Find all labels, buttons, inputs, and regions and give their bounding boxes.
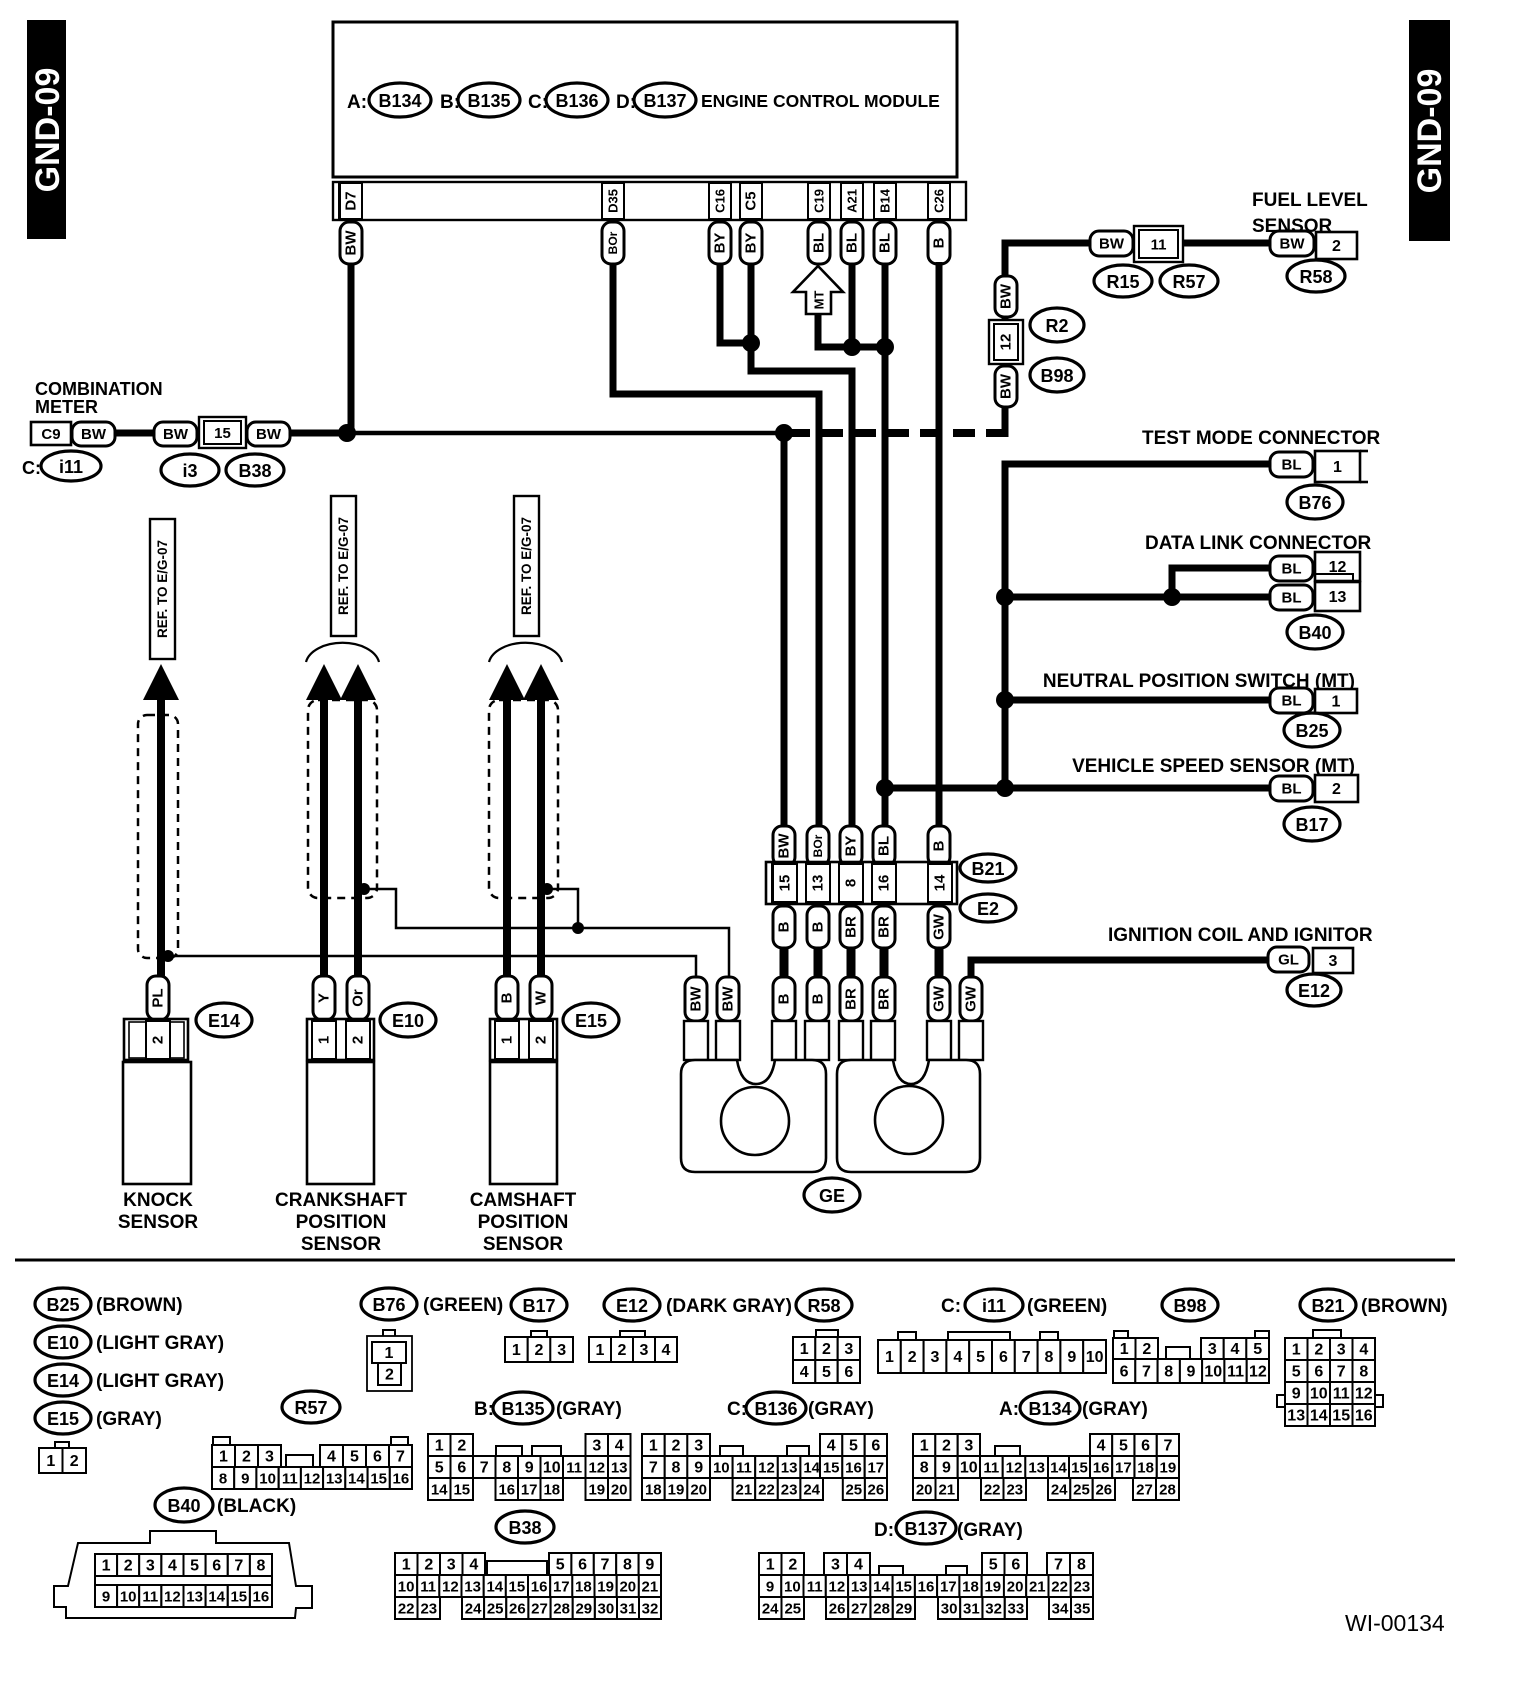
svg-text:SENSOR: SENSOR xyxy=(1252,216,1333,237)
svg-text:4: 4 xyxy=(953,1349,962,1366)
wire label BL (B14) xyxy=(874,222,896,264)
svg-text:BL: BL xyxy=(1282,781,1302,798)
svg-text:1: 1 xyxy=(316,1036,333,1044)
junction dot BL riser bottom xyxy=(996,779,1014,797)
svg-text:1: 1 xyxy=(435,1438,444,1455)
svg-text:E10: E10 xyxy=(47,1333,79,1353)
svg-text:2: 2 xyxy=(1142,1341,1151,1358)
wire BY from C16 to junction xyxy=(720,264,751,343)
svg-text:BR: BR xyxy=(876,916,893,938)
legend connector E12 pinout xyxy=(620,1331,645,1338)
svg-text:2: 2 xyxy=(788,1557,797,1574)
svg-text:27: 27 xyxy=(851,1601,868,1618)
wire BL to data link 12 xyxy=(1172,568,1270,597)
knock sensor body xyxy=(123,1062,191,1184)
svg-text:14: 14 xyxy=(348,1471,365,1488)
svg-text:E12: E12 xyxy=(1298,981,1330,1001)
dashed shield box (crank) xyxy=(308,700,377,898)
pin box 1 (test mode) xyxy=(1315,451,1360,482)
pin C16 xyxy=(709,183,731,219)
connector oval R15 xyxy=(1094,265,1152,297)
svg-text:11: 11 xyxy=(736,1460,752,1477)
svg-text:9: 9 xyxy=(241,1471,249,1488)
svg-text:B40: B40 xyxy=(1298,623,1331,643)
svg-text:13: 13 xyxy=(1287,1408,1305,1425)
legend oval B137 xyxy=(896,1512,956,1544)
svg-text:26: 26 xyxy=(868,1482,885,1499)
svg-text:35: 35 xyxy=(1074,1601,1091,1618)
svg-text:16: 16 xyxy=(253,1589,270,1606)
svg-text:14: 14 xyxy=(486,1579,503,1596)
wire crank sensor ground tap xyxy=(358,889,578,928)
ground terminal block x728 xyxy=(716,1021,740,1060)
svg-text:24: 24 xyxy=(762,1601,779,1618)
svg-text:16: 16 xyxy=(918,1579,935,1596)
legend oval B38 xyxy=(496,1511,554,1543)
wire cam sensor ground tap xyxy=(541,889,578,928)
connector B21/E2 box xyxy=(766,862,957,904)
svg-text:27: 27 xyxy=(1136,1482,1153,1499)
svg-text:(BROWN): (BROWN) xyxy=(1361,1296,1448,1317)
wire label BR lower at x884 xyxy=(873,977,895,1021)
svg-text:3: 3 xyxy=(557,1342,566,1359)
wire meter bus dashed to fuel chain xyxy=(788,429,1005,437)
svg-text:BW: BW xyxy=(256,426,282,443)
svg-text:28: 28 xyxy=(873,1601,890,1618)
svg-text:16: 16 xyxy=(1355,1408,1373,1425)
wire label B (C26) xyxy=(928,222,950,264)
svg-text:(LIGHT GRAY): (LIGHT GRAY) xyxy=(96,1333,224,1354)
svg-text:12: 12 xyxy=(588,1460,605,1477)
svg-text:C:: C: xyxy=(941,1296,961,1317)
svg-text:8: 8 xyxy=(672,1460,681,1477)
svg-text:R15: R15 xyxy=(1106,272,1139,292)
pin box 12 (data link) xyxy=(1315,552,1360,581)
inline connector 15 (i3/B38) xyxy=(199,417,246,448)
wire BY from C5 down and over to B21 pin 8 xyxy=(751,264,852,828)
svg-text:23: 23 xyxy=(781,1482,798,1499)
svg-text:4: 4 xyxy=(1231,1341,1240,1358)
crank sensor body xyxy=(307,1062,374,1184)
svg-text:BY: BY xyxy=(843,836,860,857)
svg-text:14: 14 xyxy=(208,1589,225,1606)
svg-text:1: 1 xyxy=(512,1342,521,1359)
svg-text:(BROWN): (BROWN) xyxy=(96,1295,183,1316)
svg-text:1: 1 xyxy=(885,1349,894,1366)
svg-text:32: 32 xyxy=(985,1601,1002,1618)
svg-text:3: 3 xyxy=(844,1341,853,1358)
svg-text:22: 22 xyxy=(1051,1579,1068,1596)
connector oval B38 (meter) xyxy=(226,454,284,486)
svg-text:B25: B25 xyxy=(1295,721,1328,741)
svg-text:26: 26 xyxy=(509,1601,526,1618)
svg-text:6: 6 xyxy=(999,1349,1008,1366)
svg-text:C16: C16 xyxy=(713,189,728,213)
legend connector B135 pinout xyxy=(428,1434,451,1456)
svg-text:14: 14 xyxy=(431,1482,448,1499)
svg-text:29: 29 xyxy=(575,1601,592,1618)
pin C26 xyxy=(928,183,950,219)
svg-text:16: 16 xyxy=(845,1460,862,1477)
wire label BY (C5) xyxy=(740,222,762,264)
svg-text:11: 11 xyxy=(1151,237,1167,254)
svg-text:i11: i11 xyxy=(982,1296,1006,1316)
pin box bridge (data link) xyxy=(1315,574,1353,590)
junction dot BL main at speed sensor xyxy=(876,779,894,797)
svg-text:14: 14 xyxy=(1050,1460,1067,1477)
svg-text:16: 16 xyxy=(498,1482,515,1499)
legend connector B38 pinout xyxy=(395,1553,418,1575)
svg-text:26: 26 xyxy=(829,1601,846,1618)
ECM box outline xyxy=(333,22,957,177)
svg-text:5: 5 xyxy=(989,1557,998,1574)
svg-text:6: 6 xyxy=(1011,1557,1020,1574)
legend oval E15 xyxy=(35,1402,91,1434)
ground terminal block x784 xyxy=(772,1021,796,1060)
svg-text:B98: B98 xyxy=(1173,1296,1206,1316)
svg-text:10: 10 xyxy=(713,1460,730,1477)
svg-text:2: 2 xyxy=(457,1438,466,1455)
svg-text:(GREEN): (GREEN) xyxy=(1027,1296,1107,1317)
svg-text:C5: C5 xyxy=(743,191,760,210)
junction dot BY xyxy=(742,334,760,352)
svg-text:1: 1 xyxy=(1332,694,1341,711)
svg-text:10: 10 xyxy=(960,1460,978,1477)
svg-text:33: 33 xyxy=(1008,1601,1025,1618)
svg-text:3: 3 xyxy=(964,1438,973,1455)
svg-text:MT: MT xyxy=(812,291,827,310)
svg-text:E15: E15 xyxy=(575,1011,607,1031)
svg-text:7: 7 xyxy=(1022,1349,1031,1366)
ground lug GE left xyxy=(681,1060,826,1172)
svg-text:B:: B: xyxy=(474,1399,494,1420)
svg-text:15: 15 xyxy=(777,875,794,892)
svg-text:21: 21 xyxy=(938,1482,955,1499)
svg-text:12: 12 xyxy=(442,1579,459,1596)
svg-text:23: 23 xyxy=(420,1601,437,1618)
cam sensor body xyxy=(490,1062,557,1184)
svg-text:9: 9 xyxy=(942,1460,951,1477)
ground terminal block x696 xyxy=(684,1021,708,1060)
pin box 2 (speed sensor) xyxy=(1315,775,1358,802)
wire label BL (A21) xyxy=(841,222,863,264)
ref label REF. TO E/G-07 (cam) xyxy=(514,496,539,636)
svg-text:BL: BL xyxy=(877,233,894,253)
svg-text:2: 2 xyxy=(672,1438,681,1455)
svg-text:17: 17 xyxy=(521,1482,538,1499)
svg-text:GW: GW xyxy=(931,985,948,1012)
svg-text:5: 5 xyxy=(190,1558,199,1575)
svg-text:E10: E10 xyxy=(392,1011,424,1031)
svg-text:12: 12 xyxy=(304,1471,321,1488)
svg-text:7: 7 xyxy=(1163,1438,1172,1455)
wire BL from A21 down xyxy=(849,264,856,347)
legend oval B134 xyxy=(1020,1392,1080,1424)
svg-text:BR: BR xyxy=(843,916,860,938)
legend oval i11 xyxy=(965,1289,1023,1321)
connector oval B76 (test mode) xyxy=(1287,485,1343,519)
svg-text:POSITION: POSITION xyxy=(296,1212,387,1233)
svg-text:23: 23 xyxy=(1074,1579,1091,1596)
legend oval B135 xyxy=(493,1392,553,1424)
svg-text:REF. TO E/G-07: REF. TO E/G-07 xyxy=(336,517,351,615)
svg-text:13: 13 xyxy=(781,1460,798,1477)
svg-text:8: 8 xyxy=(1164,1364,1173,1381)
legend connector i11 pinout xyxy=(898,1332,916,1341)
svg-text:C:: C: xyxy=(22,458,41,478)
legend oval E14 xyxy=(35,1364,91,1396)
svg-text:10: 10 xyxy=(1086,1349,1104,1366)
arc over cam arrows xyxy=(489,643,562,662)
svg-text:15: 15 xyxy=(823,1460,840,1477)
wire label BY (C16) xyxy=(709,222,731,264)
svg-text:16: 16 xyxy=(393,1471,410,1488)
wire label B below B21 at x784 xyxy=(773,906,795,948)
arrow crank sensor wire 2 (Or) xyxy=(340,664,376,700)
svg-text:E12: E12 xyxy=(616,1296,648,1316)
svg-text:8: 8 xyxy=(502,1460,511,1477)
wire label GW below B21 at x939 xyxy=(928,906,950,948)
ground terminal block x971 xyxy=(959,1021,983,1060)
svg-text:POSITION: POSITION xyxy=(478,1212,569,1233)
svg-text:GE: GE xyxy=(819,1186,845,1206)
svg-text:5: 5 xyxy=(1253,1341,1262,1358)
svg-text:5: 5 xyxy=(435,1460,444,1477)
svg-text:C9: C9 xyxy=(41,426,60,443)
connector oval E10 xyxy=(380,1003,436,1037)
svg-text:B136: B136 xyxy=(754,1399,797,1419)
svg-text:7: 7 xyxy=(480,1460,489,1477)
svg-text:R57: R57 xyxy=(1172,272,1205,292)
svg-text:15: 15 xyxy=(895,1579,912,1596)
svg-text:B38: B38 xyxy=(238,461,271,481)
svg-text:3: 3 xyxy=(1337,1342,1346,1359)
wire label BL (data link 12) xyxy=(1270,556,1313,581)
svg-text:B: B xyxy=(499,992,516,1003)
wire label BW (cam/crank ground) xyxy=(717,977,739,1021)
wire meter bus to D7 junction xyxy=(290,430,355,437)
connector oval i3 xyxy=(161,454,219,486)
svg-text:17: 17 xyxy=(1115,1460,1132,1477)
wire stub B x784 xyxy=(780,948,789,977)
svg-text:1: 1 xyxy=(920,1438,929,1455)
svg-text:B17: B17 xyxy=(522,1296,555,1316)
svg-text:6: 6 xyxy=(871,1438,880,1455)
svg-text:B137: B137 xyxy=(904,1519,947,1539)
svg-text:SENSOR: SENSOR xyxy=(483,1234,564,1255)
svg-text:19: 19 xyxy=(597,1579,614,1596)
svg-text:1: 1 xyxy=(102,1558,111,1575)
svg-text:Or: Or xyxy=(350,989,367,1007)
svg-text:R2: R2 xyxy=(1045,316,1068,336)
svg-text:13: 13 xyxy=(326,1471,343,1488)
svg-text:21: 21 xyxy=(642,1579,659,1596)
svg-text:B76: B76 xyxy=(1298,493,1331,513)
svg-text:10: 10 xyxy=(120,1589,137,1606)
svg-text:BW: BW xyxy=(998,283,1015,309)
svg-text:6: 6 xyxy=(578,1557,587,1574)
svg-text:13: 13 xyxy=(464,1579,481,1596)
svg-text:i3: i3 xyxy=(182,461,197,481)
ground terminal block x817 xyxy=(805,1021,829,1060)
label GND-09 banner left xyxy=(27,20,67,239)
separator rule xyxy=(15,1259,1455,1262)
connector oval B25 (neutral switch) xyxy=(1284,713,1340,747)
svg-text:29: 29 xyxy=(896,1601,913,1618)
svg-text:E2: E2 xyxy=(977,899,999,919)
pin D35 xyxy=(602,183,624,219)
svg-text:4: 4 xyxy=(615,1438,624,1455)
svg-text:REF. TO E/G-07: REF. TO E/G-07 xyxy=(519,517,534,615)
svg-text:13: 13 xyxy=(810,875,827,892)
svg-text:IGNITION COIL AND IGNITOR: IGNITION COIL AND IGNITOR xyxy=(1108,925,1373,946)
svg-text:10: 10 xyxy=(1204,1364,1222,1381)
svg-text:(GRAY): (GRAY) xyxy=(957,1520,1023,1541)
connector oval R58 xyxy=(1287,260,1345,292)
wire meter bus mid xyxy=(351,431,784,436)
connector oval B135 (ECM B) xyxy=(458,83,520,117)
svg-text:9: 9 xyxy=(1292,1386,1301,1403)
svg-text:10: 10 xyxy=(1310,1386,1328,1403)
connector oval E12 (ignition) xyxy=(1287,974,1341,1006)
wire BL from MT arrow to junction xyxy=(818,314,852,347)
svg-text:17: 17 xyxy=(867,1460,884,1477)
connector oval B134 (ECM A) xyxy=(369,83,431,117)
wire label Y (crank 1) xyxy=(313,976,335,1020)
wire BL link to B14 xyxy=(852,344,885,351)
ref label REF. TO E/G-07 (knock) xyxy=(150,519,175,659)
svg-text:2: 2 xyxy=(618,1342,627,1359)
svg-text:(GRAY): (GRAY) xyxy=(556,1399,622,1420)
svg-text:4: 4 xyxy=(168,1558,177,1575)
pin D7 xyxy=(340,183,362,219)
svg-text:BW: BW xyxy=(720,986,737,1012)
pin 15 (B21) xyxy=(773,864,797,902)
svg-text:12: 12 xyxy=(998,334,1015,351)
svg-text:BW: BW xyxy=(998,373,1015,399)
svg-text:1: 1 xyxy=(219,1449,228,1466)
svg-text:24: 24 xyxy=(1051,1482,1068,1499)
svg-text:8: 8 xyxy=(1077,1557,1086,1574)
wire knock sensor ground tap xyxy=(161,956,696,977)
svg-text:24: 24 xyxy=(803,1482,820,1499)
svg-text:17: 17 xyxy=(553,1579,570,1596)
svg-text:13: 13 xyxy=(186,1589,203,1606)
svg-text:24: 24 xyxy=(465,1601,482,1618)
svg-text:CRANKSHAFT: CRANKSHAFT xyxy=(275,1190,407,1211)
svg-text:3: 3 xyxy=(265,1449,274,1466)
legend connector B136 pinout xyxy=(642,1434,665,1456)
svg-text:4: 4 xyxy=(827,1438,836,1455)
svg-text:11: 11 xyxy=(1227,1364,1244,1381)
wire label BL (C19) xyxy=(808,222,830,264)
svg-text:BL: BL xyxy=(1282,693,1302,710)
svg-text:B14: B14 xyxy=(878,188,893,213)
connector oval R57 xyxy=(1160,265,1218,297)
svg-text:20: 20 xyxy=(916,1482,933,1499)
svg-text:16: 16 xyxy=(876,875,893,892)
pin box 1 (neutral switch) xyxy=(1315,689,1357,713)
wire fuel to sensor xyxy=(1183,240,1270,247)
svg-text:32: 32 xyxy=(642,1601,659,1618)
svg-text:5: 5 xyxy=(976,1349,985,1366)
svg-text:9: 9 xyxy=(1067,1349,1076,1366)
svg-text:BY: BY xyxy=(712,233,729,254)
svg-text:BL: BL xyxy=(1282,457,1302,474)
svg-text:9: 9 xyxy=(525,1460,534,1477)
svg-text:GL: GL xyxy=(1278,952,1299,969)
svg-text:B135: B135 xyxy=(467,91,510,111)
svg-text:1: 1 xyxy=(800,1341,809,1358)
legend oval B21 xyxy=(1300,1289,1356,1321)
svg-text:8: 8 xyxy=(623,1557,632,1574)
wire label BW (B98 bottom) xyxy=(995,366,1017,407)
svg-text:8: 8 xyxy=(843,879,860,887)
wire label BL (test mode) xyxy=(1270,452,1313,477)
svg-text:(GRAY): (GRAY) xyxy=(96,1409,162,1430)
legend oval B25 xyxy=(35,1288,91,1320)
svg-text:BW: BW xyxy=(776,833,793,859)
wire label BW (D7) xyxy=(340,222,362,264)
svg-text:Y: Y xyxy=(316,993,333,1003)
svg-text:BW: BW xyxy=(163,426,189,443)
junction dot data link xyxy=(1163,588,1181,606)
svg-text:2: 2 xyxy=(124,1558,133,1575)
svg-text:15: 15 xyxy=(509,1579,526,1596)
wire meter segment xyxy=(115,430,154,437)
label GND-09 banner right xyxy=(1409,20,1450,241)
wire label BW (knock ground) xyxy=(685,977,707,1021)
svg-text:7: 7 xyxy=(1054,1557,1063,1574)
svg-text:3: 3 xyxy=(592,1438,601,1455)
svg-text:12: 12 xyxy=(1355,1386,1373,1403)
ref label REF. TO E/G-07 (crank) xyxy=(331,496,356,636)
svg-text:15: 15 xyxy=(230,1589,247,1606)
junction dot meter bus at D7 drop xyxy=(338,424,356,442)
svg-text:31: 31 xyxy=(620,1601,637,1618)
svg-text:R57: R57 xyxy=(294,1398,327,1418)
svg-text:3: 3 xyxy=(1329,953,1338,970)
legend connector B17 pinout xyxy=(531,1331,547,1338)
inline connector 12 (R2/B98) xyxy=(989,320,1023,364)
MT arrow symbol (C19) xyxy=(793,266,843,314)
connector E14 box (knock) xyxy=(124,1019,188,1060)
wire BL to test mode connector xyxy=(1005,464,1270,788)
svg-text:20: 20 xyxy=(611,1482,628,1499)
svg-text:1: 1 xyxy=(649,1438,658,1455)
arrow cam sensor wire 2 (W) xyxy=(523,664,559,700)
svg-text:9: 9 xyxy=(694,1460,703,1477)
svg-text:11: 11 xyxy=(420,1579,436,1596)
wire label B (cam 1) xyxy=(496,976,518,1020)
wire stub GW x939 xyxy=(935,948,944,977)
pin A21 xyxy=(841,183,863,219)
svg-text:1: 1 xyxy=(385,1345,394,1362)
svg-text:PL: PL xyxy=(150,988,167,1007)
svg-text:2: 2 xyxy=(1332,781,1341,798)
svg-text:1: 1 xyxy=(402,1557,411,1574)
pin box 3 (ignition) xyxy=(1313,948,1353,973)
junction dot meter bus at BW drop xyxy=(775,424,793,442)
svg-text:1: 1 xyxy=(766,1557,775,1574)
svg-text:BY: BY xyxy=(743,233,760,254)
connector oval B136 (ECM C) xyxy=(546,83,608,117)
svg-text:2: 2 xyxy=(70,1453,79,1470)
svg-text:D:: D: xyxy=(874,1520,894,1541)
svg-text:2: 2 xyxy=(424,1557,433,1574)
wire label B (B21 pin 14) xyxy=(928,826,950,866)
svg-text:BW: BW xyxy=(343,230,360,256)
